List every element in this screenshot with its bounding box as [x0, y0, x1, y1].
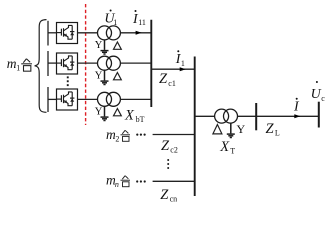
- label delta row 3: [114, 109, 122, 116]
- svg-text:I: I: [293, 100, 300, 115]
- wire transformer XT to bus 3: [238, 115, 257, 117]
- svg-text:Y: Y: [237, 122, 246, 136]
- bus 4: [318, 102, 320, 128]
- bus 3: [255, 103, 257, 130]
- bus 1: [150, 20, 152, 107]
- horizontal dots row mn: [136, 180, 146, 182]
- dc terminal bar row 3: [47, 87, 49, 112]
- svg-text:Y: Y: [95, 107, 103, 118]
- svg-text:Z: Z: [161, 138, 170, 154]
- svg-text:X: X: [124, 107, 135, 123]
- label mn(tai): [106, 172, 130, 188]
- label XbT reactance: [124, 107, 145, 124]
- label delta row 1: [114, 42, 122, 49]
- current arrow I1: [180, 67, 186, 71]
- label Zc2 impedance: [161, 138, 178, 155]
- transformer T12: [98, 56, 121, 70]
- wire transformer 2 to bus 1: [120, 62, 151, 64]
- label Zcn impedance: [160, 187, 177, 204]
- svg-text:11: 11: [138, 18, 146, 27]
- wire bus 1 to bus 2 (Zc1 branch): [151, 68, 194, 70]
- converter module 1 (IGBT with diode): [57, 23, 78, 44]
- label I current: [293, 98, 300, 115]
- svg-text:c2: c2: [170, 145, 178, 154]
- wire dc bar to converter 2: [48, 62, 57, 64]
- ground XT: [227, 124, 235, 138]
- converter module 2 (IGBT with diode): [57, 53, 78, 74]
- transformer T13: [98, 92, 121, 106]
- wire converter 2 to transformer 2: [78, 62, 98, 64]
- wire dc bar to converter 1: [48, 32, 57, 34]
- svg-text:2: 2: [115, 135, 119, 144]
- svg-text:1: 1: [16, 64, 20, 73]
- svg-text:cn: cn: [170, 195, 178, 204]
- wire transformer 3 to bus 1: [120, 98, 151, 100]
- current arrow I: [294, 114, 300, 118]
- red dashed partition line: [85, 4, 87, 125]
- current arrow I11: [136, 31, 142, 35]
- svg-text:Y: Y: [95, 71, 103, 82]
- svg-text:T: T: [230, 146, 235, 155]
- wire m2 group to bus 2 (Zc2 branch): [153, 134, 195, 136]
- svg-text:bT: bT: [136, 115, 145, 124]
- label I1 current: [175, 50, 185, 68]
- wire transformer 1 to bus 1: [120, 32, 151, 34]
- dc terminal bar row 2: [47, 51, 49, 76]
- label m1(tai): [7, 56, 32, 73]
- label XT reactance: [219, 139, 235, 156]
- transformer XT: [215, 109, 238, 123]
- label delta XT: [213, 125, 222, 134]
- brace for m1 group: [35, 20, 47, 113]
- ground row 2: [101, 71, 109, 85]
- svg-text:1: 1: [113, 18, 117, 27]
- svg-text:U: U: [311, 87, 322, 102]
- converter module 3 (IGBT with diode): [57, 89, 78, 110]
- wire dc bar to converter 3: [48, 98, 57, 100]
- wire converter 3 to transformer 3: [78, 98, 98, 100]
- ground row 1: [101, 40, 109, 54]
- svg-text:n: n: [115, 180, 119, 189]
- svg-text:X: X: [219, 139, 230, 155]
- dc terminal bar row 1: [47, 21, 49, 46]
- label m2(tai): [106, 127, 130, 144]
- svg-text:Z: Z: [266, 121, 275, 137]
- svg-text:Y: Y: [95, 40, 103, 51]
- horizontal dots row m2: [136, 134, 146, 136]
- label Zc1 impedance: [159, 71, 176, 88]
- svg-text:Z: Z: [160, 187, 169, 203]
- label Uc voltage: [311, 81, 326, 103]
- label I11 current: [132, 10, 146, 27]
- label ZL impedance: [266, 121, 280, 138]
- label delta row 2: [114, 73, 122, 80]
- wire mn group to bus 2 (Zcn branch): [153, 180, 195, 182]
- svg-text:L: L: [275, 129, 280, 138]
- bus 2: [194, 57, 196, 197]
- wire converter 1 to transformer 1: [78, 32, 98, 34]
- vertical dots between m2 and mn rows: [167, 159, 169, 169]
- svg-text:c1: c1: [168, 79, 176, 88]
- vertical dots between converter 2 and 3: [67, 76, 69, 86]
- label U1 voltage: [104, 10, 117, 28]
- svg-text:1: 1: [181, 59, 185, 68]
- svg-text:Z: Z: [159, 71, 168, 87]
- wire bus 2 to transformer XT: [195, 115, 215, 117]
- wire bus 3 to bus 4 (ZL branch): [256, 115, 319, 117]
- svg-text:c: c: [321, 94, 325, 103]
- transformer T11: [98, 26, 121, 40]
- ground row 3: [101, 107, 109, 121]
